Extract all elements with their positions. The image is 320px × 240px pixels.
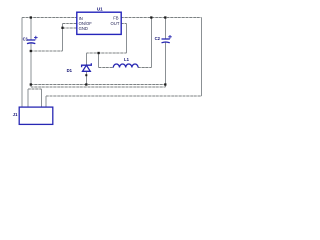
inductor L1 (113, 64, 138, 68)
capacitor C2 (162, 35, 172, 43)
wire ground line B (31, 86, 166, 88)
wire FB/VOUT top right (121, 17, 201, 19)
svg-text:C1: C1 (23, 37, 29, 42)
svg-text:GND: GND (79, 26, 88, 31)
horizontal wire underlay (light) (22, 18, 202, 97)
wire VIN left drop (21, 18, 23, 108)
node C2 bottom/ground (164, 83, 166, 85)
node VOUT/C2 top (164, 16, 166, 18)
wire C2 bottom to ground (164, 42, 166, 88)
svg-text:FB: FB (113, 15, 119, 20)
node diode anode/ground (85, 83, 87, 85)
wire to inductor left (99, 67, 114, 69)
wire GND stub (63, 27, 77, 29)
wire right frame (201, 18, 203, 97)
node VIN/C1 top (30, 16, 32, 18)
wire onoff/gnd vertical (62, 23, 64, 51)
wire inductor right (138, 67, 151, 69)
node IC onoff/gnd junction (61, 27, 63, 29)
wire diode cathode lead (85, 53, 87, 65)
vertical wires (solid) (22, 18, 202, 108)
svg-text:L1: L1 (124, 57, 130, 62)
wire inductor up to VOUT (150, 18, 152, 68)
wire C1 top (30, 18, 32, 41)
wire J1 pin2 (27, 89, 29, 107)
node ground line A left (30, 83, 32, 85)
wire OUT stub (121, 23, 126, 25)
svg-text:OUT: OUT (111, 21, 120, 26)
horizontal wire dashes (22, 18, 202, 97)
op-amp U1 regulator box (77, 12, 121, 34)
wire VOUT bottom return (46, 95, 202, 97)
svg-text:D1: D1 (67, 68, 73, 73)
junction dots (30, 16, 167, 85)
wire ground line A (31, 84, 166, 86)
wire diode anode lead (85, 71, 87, 84)
wire J1 pin4 (45, 96, 47, 107)
connector J1 box (19, 107, 53, 124)
wire OUT node to diode (86, 52, 126, 54)
wire J1 pin3 (41, 89, 43, 107)
diode D1 (schottky, cathode up) (82, 63, 92, 71)
node C1 bottom / IC gnd branch (30, 50, 32, 52)
wire OUT vertical (126, 24, 128, 54)
node diode anode pin stub (85, 74, 87, 76)
svg-text:C2: C2 (155, 36, 161, 41)
wire C1 bottom to ground (30, 44, 32, 88)
wire VIN top (22, 17, 77, 19)
node VOUT/inductor (150, 16, 152, 18)
wire C2 top (164, 18, 166, 40)
capacitor C1 (27, 36, 38, 44)
wire ON/OFF stub (63, 22, 77, 24)
wire gnd branch (31, 50, 63, 52)
node OUT/diode/inductor (97, 52, 99, 54)
wire OUT node down to inductor (98, 53, 100, 68)
wire J1 pin2-pin3 link (28, 88, 42, 90)
svg-text:U1: U1 (97, 7, 103, 12)
svg-text:J1: J1 (13, 112, 18, 117)
